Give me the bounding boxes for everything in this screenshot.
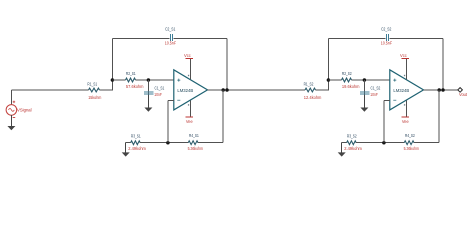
- svg-text:5.36kohm: 5.36kohm: [188, 146, 203, 152]
- svg-text:R3_S2: R3_S2: [347, 133, 357, 139]
- node: stage 2 feedback divider: [382, 141, 386, 145]
- svg-text:2.49kohm: 2.49kohm: [128, 146, 146, 152]
- resistor R4_S1: [188, 133, 203, 152]
- wire: R3_S1 to feedback node: [140, 142, 188, 144]
- op-amp U1 LM324B: [174, 70, 208, 110]
- svg-text:R4_S2: R4_S2: [405, 133, 415, 139]
- svg-text:VSignal: VSignal: [17, 107, 32, 112]
- capacitor C2_S2: [381, 26, 392, 46]
- wire: input rail: [11, 89, 88, 91]
- ground: C1_S2: [363, 95, 365, 108]
- ground: R3_S1 left end: [125, 143, 127, 153]
- node: stage 2 + input / C1 tap: [363, 78, 367, 82]
- wire: gnd corner to R3_S2: [342, 142, 347, 144]
- capacitor C1_S2: [360, 85, 380, 97]
- svg-text:C2_S1: C2_S1: [165, 26, 175, 32]
- svg-text:R3_S1: R3_S1: [131, 133, 141, 139]
- wire: R1_S2 to node: [316, 89, 329, 91]
- resistor R1_S1: [87, 81, 101, 101]
- power Vee stage 1: [186, 101, 194, 124]
- op-amp U2 LM324B: [390, 70, 424, 110]
- resistor R2_S1: [126, 71, 144, 90]
- node: stage 1 output to R4 riser: [221, 88, 225, 92]
- svg-text:10.5nF: 10.5nF: [381, 40, 392, 46]
- voltage source VSignal: [6, 90, 32, 118]
- resistor R1_S2: [304, 81, 322, 101]
- wire: stage 2 feedback riser to - input: [383, 100, 385, 142]
- power Vcc stage 2: [400, 53, 409, 80]
- svg-text:2.49kohm: 2.49kohm: [344, 146, 362, 152]
- svg-text:Vee: Vee: [186, 119, 193, 124]
- resistor R4_S2: [404, 133, 419, 152]
- wire: stage 1 riser down to R4: [222, 90, 224, 143]
- wire: C1_S1 drop: [147, 80, 149, 95]
- ground: R3_S2 left end: [341, 143, 343, 153]
- svg-text:Vout: Vout: [459, 92, 468, 97]
- svg-text:57.6kohm: 57.6kohm: [126, 84, 144, 90]
- node: stage 2 output to R4 riser: [437, 88, 441, 92]
- svg-text:5.36kohm: 5.36kohm: [404, 146, 419, 152]
- svg-text:12.4kohm: 12.4kohm: [304, 95, 322, 101]
- svg-text:19.6kohm: 19.6kohm: [342, 84, 360, 90]
- svg-text:R2_S1: R2_S1: [126, 71, 136, 77]
- wire: R3_S2 to feedback node: [356, 142, 404, 144]
- svg-text:R1_S1: R1_S1: [87, 81, 97, 87]
- wire: op-amp 2 output: [424, 89, 458, 91]
- capacitor C1_S1: [144, 85, 164, 97]
- resistor R2_S2: [342, 71, 360, 90]
- node: stage 1 feedback divider: [166, 141, 170, 145]
- svg-text:C1_S2: C1_S2: [371, 85, 381, 91]
- svg-text:C1_S1: C1_S1: [155, 85, 165, 91]
- svg-text:LM324B: LM324B: [393, 88, 409, 94]
- wire: R2_S2 to op-amp + input: [352, 79, 390, 81]
- wire: stage 2 node to R2: [328, 79, 341, 81]
- wire: R4_S1 to output riser: [198, 142, 223, 144]
- capacitor C2_S1: [165, 26, 176, 46]
- wire: R1_S1 to node: [100, 89, 113, 91]
- node: stage 1 output to C2 riser: [225, 88, 229, 92]
- resistor R3_S2: [344, 133, 362, 152]
- wire: stage 2 riser down to R4: [438, 90, 440, 143]
- svg-text:Vee: Vee: [402, 119, 409, 124]
- svg-text:R4_S1: R4_S1: [189, 133, 199, 139]
- node: stage 1 junction R1/R2/C2: [111, 78, 115, 82]
- wire: op-amp 1 output: [208, 89, 306, 91]
- svg-text:LM324B: LM324B: [177, 88, 193, 94]
- wire: stage 2 input riser up to feedback rail: [327, 38, 329, 90]
- ground: VSignal: [10, 115, 12, 127]
- svg-text:10nF: 10nF: [154, 92, 162, 98]
- svg-text:C2_S2: C2_S2: [381, 26, 391, 32]
- node: stage 2 output to C2 riser: [441, 88, 445, 92]
- svg-text:Vcc: Vcc: [400, 53, 407, 58]
- port Vout: [458, 88, 468, 98]
- ground: C1_S1: [147, 95, 149, 108]
- wire: stage 2 feedback riser down to output: [442, 38, 444, 90]
- wire: stage 1 node to R2: [112, 79, 125, 81]
- resistor R3_S1: [128, 133, 146, 152]
- wire: gnd corner to R3_S1: [126, 142, 131, 144]
- wire: C1_S2 drop: [363, 80, 365, 95]
- svg-text:10.5nF: 10.5nF: [165, 40, 176, 46]
- wire: stage 1 feedback riser to - input: [167, 100, 169, 142]
- wire: stage 1 top feedback rail right: [174, 37, 228, 39]
- wire: stage 1 input riser up to feedback rail: [111, 38, 113, 90]
- wire: stage 1 top feedback rail left: [112, 37, 169, 39]
- power Vee stage 2: [402, 101, 410, 124]
- svg-text:R2_S2: R2_S2: [342, 71, 352, 77]
- wire: R4_S2 to output riser: [414, 142, 439, 144]
- power Vcc stage 1: [184, 53, 193, 80]
- svg-text:Vcc: Vcc: [184, 53, 191, 58]
- wire: R2_S1 to op-amp + input: [136, 79, 174, 81]
- svg-text:10nF: 10nF: [370, 92, 378, 98]
- wire: stage 2 top feedback rail right: [390, 37, 444, 39]
- wire: stage 1 feedback riser down to output: [226, 38, 228, 90]
- svg-text:R1_S2: R1_S2: [304, 81, 314, 87]
- svg-text:15kohm: 15kohm: [88, 95, 101, 101]
- node: stage 1 + input / C1 tap: [147, 78, 151, 82]
- node: stage 2 junction R1/R2/C2: [327, 78, 331, 82]
- wire: stage 2 top feedback rail left: [328, 37, 385, 39]
